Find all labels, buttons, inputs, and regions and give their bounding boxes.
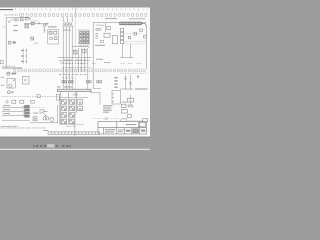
- transformer T1 enclosure: [93, 23, 146, 89]
- wire: riser taps to terminal row: [63, 17, 72, 22]
- viewer pager: total pages label: [56, 145, 59, 147]
- overload heater pairs row: [62, 81, 102, 83]
- wire: branch to control stack: [72, 47, 88, 49]
- label feeder 2: [3, 109, 10, 110]
- wire: control stack verticals: [78, 48, 87, 72]
- label smudge ladder right: [96, 59, 103, 60]
- T1 winding dashes: [95, 33, 98, 38]
- MCC starter cell B2: [70, 106, 75, 111]
- end box right margin: [143, 119, 148, 122]
- wire row 2: [2, 110, 22, 112]
- feeder rows lower-left: wire row 1: [2, 106, 22, 108]
- wire: dashed to 3Ø label right: [111, 117, 119, 119]
- label smudge feeders top: [62, 30, 71, 31]
- fuse F1: [20, 18, 23, 21]
- wire: MCC feeder verticals: [61, 92, 77, 125]
- ATS box: [127, 98, 133, 102]
- relay cabinet enclosure: [48, 30, 59, 45]
- label feeder 1: [3, 105, 10, 106]
- scale bar label: [43, 130, 48, 131]
- wire: mid-low bus: [30, 122, 58, 124]
- transformer T2 small: [43, 115, 49, 121]
- lightning arrester end 2: [23, 110, 25, 112]
- contact dots row 2: [63, 67, 82, 68]
- wire: verticals right cluster: [126, 75, 131, 90]
- wire: dashed control run 2: [124, 41, 146, 43]
- label above bus duct 2: [64, 86, 72, 87]
- notes text block: [103, 105, 112, 113]
- breaker stack left contacts: [21, 50, 27, 62]
- title block rev cell: [132, 128, 139, 133]
- control box CB: [40, 110, 44, 113]
- lightning arrester end 3: [23, 114, 25, 116]
- terminal oval row (mid sheet): [13, 69, 145, 72]
- aux mark under JB1: [101, 40, 104, 42]
- wire: feeder group of four verticals: [63, 27, 72, 90]
- fuse marks on right verticals: [124, 77, 131, 84]
- label TB-4 right: [105, 18, 117, 19]
- contacts on right run: [92, 62, 141, 64]
- panel LP2 box: [112, 90, 120, 104]
- svg-text:See Clarification/Correction h: See Clarification/Correction hotline she…: [0, 127, 45, 130]
- wire: ladder rung 2: [59, 60, 91, 62]
- label row under ovals: [59, 73, 87, 76]
- title text ELECTRICAL: [105, 124, 145, 132]
- MCC starter cell A1: [62, 100, 67, 105]
- contact row 2: [63, 67, 91, 69]
- disconnect top right: [137, 75, 139, 78]
- MCC enclosure outline: [59, 97, 88, 124]
- wire: main 4kV bus: [6, 17, 30, 19]
- viewer pager: prev button: [39, 145, 42, 148]
- viewer pager: first-page button: [34, 145, 38, 148]
- viewer pager: last-page button: [67, 145, 71, 148]
- terminal strip TB1 (top row of terminal blocks): [20, 14, 147, 17]
- label smudge left margin b: [1, 85, 4, 86]
- label TB-5 right: [129, 18, 145, 19]
- label smudge left margin a: [1, 77, 4, 78]
- generator pill right: [121, 119, 127, 122]
- wire: switchgear bus stub: [2, 67, 22, 69]
- wire: lower-left closing line: [2, 119, 30, 121]
- label 480 mark b: [13, 30, 18, 31]
- wire: ladder rung right: [120, 57, 133, 59]
- lower-left component row: [6, 100, 35, 103]
- svg-text:480V: 480V: [34, 43, 39, 45]
- wire: dashed control run 3: [124, 43, 146, 45]
- MCC starter cell C2: [78, 106, 83, 111]
- fuse box F2: [25, 24, 29, 28]
- meter M1 circle pair: [8, 41, 11, 44]
- wire: right horizontal run: [120, 88, 133, 90]
- contact dots row 1: [63, 63, 85, 64]
- MCC starter cell C1: [78, 100, 83, 105]
- viewer pager: page input box: [47, 144, 54, 147]
- breaker B2: [83, 49, 86, 53]
- label panel name: [135, 88, 148, 89]
- wire: riser to panel LP: [93, 87, 101, 89]
- aux contacts scattered: [128, 29, 146, 39]
- wire: panel verticals to ladder: [122, 44, 130, 58]
- annotation stack right of notes: [114, 77, 117, 88]
- motor M3: [50, 118, 54, 122]
- wire: contact stack verticals left: [23, 49, 26, 64]
- label under relay matrix: [79, 46, 88, 47]
- wire: dashed feeder lower left: [2, 96, 59, 98]
- svg-text:T-Bus/Sub 4kV: T-Bus/Sub 4kV: [4, 14, 19, 16]
- graphic scale bar: [48, 132, 100, 134]
- bus duct (3-phase horizontal bar): [58, 89, 92, 92]
- motor starter enclosure: [7, 78, 15, 88]
- label GS: [13, 41, 16, 43]
- MCC starter cell B4: [70, 119, 75, 124]
- wire: TB2 tail connector: [141, 24, 146, 27]
- wire: mid-low right edge: [57, 105, 59, 123]
- wire: drop from transformer circles: [43, 27, 45, 33]
- breaker cubicle right: [22, 76, 29, 84]
- drawing caption small upper: [1, 125, 18, 128]
- page (scanned sheet): [0, 8, 150, 137]
- MCC starter cell B1: [70, 100, 75, 105]
- svg-text:4160/480: 4160/480: [96, 25, 106, 27]
- tap box on dashed feeder: [37, 95, 40, 98]
- CT current transformer: [25, 17, 30, 20]
- page bottom shadow: [0, 136, 150, 139]
- label smudge near T2: [43, 111, 48, 112]
- end box on dashed feeder: [56, 94, 59, 100]
- fuse block lower: [31, 37, 34, 40]
- label 480 mark a: [14, 25, 18, 26]
- MCC starter cell A2: [62, 106, 67, 111]
- svg-text:(3Ø): (3Ø): [104, 117, 109, 120]
- page fold crease middle: [74, 13, 76, 124]
- meter M2: [8, 91, 14, 94]
- wire: dashed to 3Ø label left: [93, 117, 103, 119]
- svg-text:(2): (2): [3, 26, 6, 28]
- T1 primary circles: [96, 28, 101, 30]
- MCC starter cell B3: [70, 113, 75, 118]
- wire: ladder rung 1: [58, 57, 92, 59]
- top ruler tick row: [16, 9, 148, 11]
- junction box JB1: [104, 27, 117, 44]
- page fold crease top: [75, 8, 77, 14]
- lightning arrester end 1: [23, 106, 25, 108]
- label above bus duct: [57, 86, 61, 87]
- label smudge right cluster: [122, 102, 129, 103]
- PT potential transformer circles: [14, 19, 19, 21]
- wire: top-left border line: [0, 9, 13, 11]
- label smudge ladder right 2: [104, 62, 110, 63]
- CT cluster on feeders: [62, 23, 73, 26]
- label transformer rating: [95, 45, 105, 46]
- label GEN: [12, 73, 17, 75]
- MCC starter cell A4: [62, 119, 67, 124]
- wire row 3: [2, 114, 22, 116]
- viewer background: [0, 0, 150, 150]
- label TB-108A: [48, 26, 57, 27]
- node box at margin: [0, 60, 3, 63]
- components on 4kV bus mid: [31, 22, 48, 26]
- wire: right riser down: [130, 95, 132, 105]
- relay matrix contacts: [80, 31, 89, 44]
- svg-text:(3Ø): (3Ø): [73, 93, 78, 97]
- terminal strip TB2 (dark bar): [120, 22, 141, 25]
- relay K2 coil: [50, 37, 58, 40]
- contactor with dot: [33, 117, 37, 121]
- MCC starter cell A3: [62, 113, 67, 118]
- breaker B1: [73, 50, 77, 54]
- wire: dashed run to end box: [128, 119, 142, 121]
- wire: dashed branch mid-low: [30, 107, 45, 109]
- label feeder 3: [3, 113, 10, 114]
- title block stamp box: [138, 122, 145, 126]
- wire: dashed pair below ovals right: [120, 72, 148, 74]
- contact row 1: [65, 62, 88, 64]
- right cluster boxes: [121, 104, 133, 118]
- panel LP outline: [90, 92, 100, 105]
- wire: aux vertical to heater group: [87, 58, 89, 89]
- wire: dashed control run 1: [124, 33, 142, 35]
- relay K1: [49, 31, 57, 34]
- wire: transformer internal drop: [105, 23, 107, 32]
- relay matrix (dashed panel): [79, 29, 90, 45]
- generator G1: [7, 72, 10, 75]
- distribution panel DP (dark cluster): [25, 105, 30, 117]
- page fold crease bottom: [74, 125, 76, 137]
- contact column stack: [121, 28, 124, 43]
- switch S1 (disconnect): [9, 18, 13, 22]
- wire: left feeder drop: [5, 18, 7, 68]
- overload marks on feeders row 1: [62, 77, 73, 79]
- label smudge mid low: [33, 113, 38, 114]
- label row between rungs: [64, 59, 86, 62]
- title block outline: [98, 122, 146, 134]
- wire: main bus right segment: [24, 22, 49, 24]
- viewer bottom highlight strip: [0, 149, 150, 150]
- viewer pager: next button: [63, 145, 66, 148]
- viewer pager: page label: [44, 145, 46, 147]
- svg-text:4160V Bus 1A: 4160V Bus 1A: [2, 65, 15, 68]
